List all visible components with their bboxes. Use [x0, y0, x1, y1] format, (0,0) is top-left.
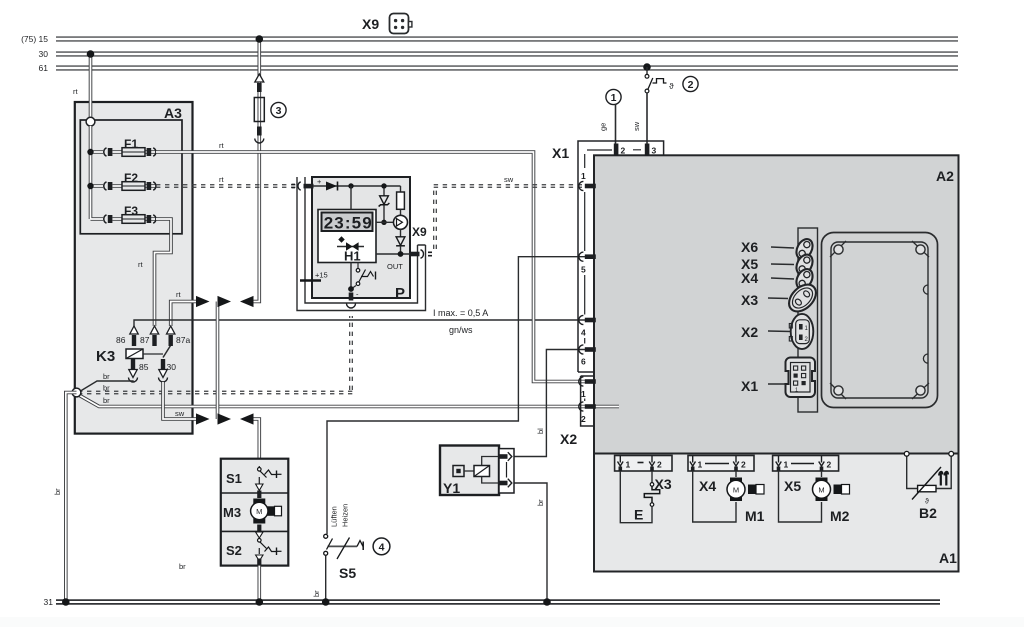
label bl vertical — [536, 428, 545, 434]
svg-text:5: 5 — [581, 265, 586, 275]
buzzer — [394, 209, 408, 229]
node br on A3 edge — [72, 388, 81, 397]
connector strip X1 — [552, 141, 664, 372]
connector face X1 — [741, 358, 815, 398]
timer unit P outer collar — [297, 177, 426, 311]
wire 85 to ground node — [78, 381, 133, 393]
circled 4 — [373, 538, 390, 555]
connector strip X5 — [773, 456, 839, 495]
svg-text:X4: X4 — [699, 478, 716, 494]
label sw — [175, 409, 185, 418]
svg-text:A2: A2 — [936, 168, 954, 184]
svg-text:M: M — [256, 507, 262, 516]
svg-text:M3: M3 — [223, 505, 241, 520]
wire ge circled1 to X1 pin2 — [615, 104, 617, 148]
X2 pin 2 — [579, 402, 596, 424]
clock display box — [318, 186, 376, 263]
relay K3 — [96, 344, 172, 365]
OUT node — [376, 251, 410, 271]
wire sw thermal to X1 pin3 — [646, 93, 648, 148]
svg-text:X1: X1 — [552, 145, 569, 161]
glow plug E — [620, 471, 659, 523]
svg-text:K3: K3 — [96, 348, 115, 365]
ECU connector panel — [798, 228, 818, 412]
K3 pin 87a — [167, 326, 191, 346]
connector strip X4 — [688, 456, 754, 495]
fuse 3 wire from bus15 — [240, 35, 263, 307]
motor M3 — [223, 499, 282, 524]
svg-text:2: 2 — [741, 460, 746, 470]
label sw vertical — [632, 121, 641, 131]
svg-text:ϑ: ϑ — [669, 81, 674, 91]
svg-text:1: 1 — [581, 171, 586, 181]
connector face X2 — [741, 314, 813, 349]
svg-text:M1: M1 — [745, 508, 765, 524]
box S1 M3 S2 — [221, 459, 288, 566]
X1 pin 3 — [645, 144, 657, 156]
svg-text:X2: X2 — [741, 324, 758, 340]
wire S2 to bus31 — [255, 566, 263, 606]
motor M2 — [779, 471, 850, 525]
dashed wire X9 to X1 pin1 — [434, 185, 582, 249]
K3 pin 87 — [140, 326, 159, 346]
bus 30 — [56, 51, 958, 56]
svg-text:br: br — [103, 396, 110, 405]
wire 87a to plug row1 — [171, 296, 210, 326]
svg-text:1: 1 — [795, 388, 798, 394]
svg-text:M2: M2 — [830, 508, 850, 524]
circled 1 — [606, 89, 621, 104]
svg-text:6: 6 — [581, 357, 586, 367]
label X9 top — [362, 16, 379, 32]
P input pin 15 — [292, 177, 323, 190]
wire X2 pin2 stub inside A2 — [594, 405, 619, 409]
diode D2 — [396, 229, 405, 254]
svg-text:1: 1 — [784, 460, 789, 470]
wire Y1 to bus31 — [514, 483, 551, 606]
X1 pin 4 — [579, 315, 596, 337]
heater box A1 — [594, 454, 959, 572]
label I max — [433, 308, 488, 318]
svg-text:gn/ws: gn/ws — [449, 325, 473, 335]
svg-text:ge: ge — [599, 123, 608, 131]
bus 61 — [56, 65, 958, 70]
switch S1 — [226, 466, 282, 498]
X1 pin 6 — [579, 345, 596, 367]
svg-text:S2: S2 — [226, 543, 242, 558]
switch S5 — [324, 534, 364, 581]
svg-text:H1: H1 — [344, 249, 361, 264]
fuse 3 connector lower — [255, 127, 264, 143]
+15 terminal — [300, 271, 328, 281]
svg-text:bl: bl — [536, 428, 545, 434]
svg-text:1: 1 — [611, 92, 617, 104]
svg-text:+: + — [317, 177, 322, 186]
svg-text:2: 2 — [688, 79, 694, 91]
motor M1 — [693, 471, 765, 525]
label br vertical — [536, 499, 545, 506]
fuse 3 connector upper — [255, 74, 264, 92]
svg-text:br: br — [53, 488, 62, 495]
label rt — [176, 290, 181, 299]
X1 pin 2 — [614, 144, 626, 156]
box A3 — [75, 102, 193, 434]
wire fuse rail — [87, 126, 103, 219]
svg-text:4: 4 — [581, 328, 586, 338]
svg-text:br: br — [179, 562, 186, 571]
svg-text:sw: sw — [632, 121, 641, 131]
K3 pin 86 — [116, 326, 138, 346]
svg-text:30: 30 — [167, 362, 177, 372]
thermal switch circled 2 — [643, 63, 674, 93]
connector strip X3 — [615, 456, 672, 493]
svg-text:E: E — [634, 507, 643, 523]
dashed wire br node to P minus — [78, 316, 352, 394]
connector face X5 — [741, 252, 816, 277]
svg-text:br: br — [536, 499, 545, 506]
svg-text:3: 3 — [652, 146, 657, 156]
svg-text:2: 2 — [827, 460, 832, 470]
Y1 connector collar — [499, 449, 514, 493]
label br vertical — [53, 488, 62, 495]
label rt — [219, 141, 224, 150]
svg-text:M: M — [818, 485, 824, 494]
svg-text:1: 1 — [626, 460, 631, 470]
label rt — [73, 87, 78, 96]
svg-text:X9: X9 — [412, 225, 427, 239]
svg-text:br: br — [103, 384, 110, 393]
svg-text:X1: X1 — [741, 378, 758, 394]
label br — [179, 562, 186, 571]
ECU housing — [822, 233, 938, 408]
svg-text:1: 1 — [698, 460, 703, 470]
node on fuse box — [86, 117, 95, 126]
ECU box A2 — [594, 155, 959, 453]
svg-text:F2: F2 — [124, 171, 138, 185]
svg-text:2: 2 — [621, 146, 626, 156]
label 61 — [39, 63, 49, 73]
diode D1 — [326, 182, 338, 191]
svg-text:61: 61 — [39, 63, 49, 73]
connector face X3 — [741, 279, 821, 316]
label rt — [219, 175, 224, 184]
fuse F2 — [104, 171, 156, 190]
lamp H1 — [337, 236, 364, 263]
wire F1 to X2 pin1 — [156, 152, 587, 382]
svg-text:M: M — [733, 485, 739, 494]
svg-text:sw: sw — [175, 409, 185, 418]
end — [0, 617, 1024, 627]
svg-text:OUT: OUT — [387, 262, 403, 271]
zener diode — [376, 188, 394, 225]
label ge vertical — [599, 123, 608, 131]
wire K3-30 to plug row2 — [163, 382, 210, 425]
wire br node to X2 pin2 — [77, 394, 619, 407]
svg-text:A3: A3 — [164, 105, 182, 121]
P minus exit — [347, 263, 360, 309]
svg-text:85: 85 — [139, 362, 149, 372]
plug link wire vertical — [218, 296, 232, 425]
svg-text:1: 1 — [581, 389, 586, 399]
fuse 3 — [254, 98, 264, 122]
label Heizen vertical — [341, 504, 350, 527]
svg-text:P: P — [395, 285, 405, 302]
K3 pin 85 — [129, 359, 149, 382]
svg-text:br: br — [103, 372, 110, 381]
svg-text:I max. = 0,5 A: I max. = 0,5 A — [433, 308, 488, 318]
label br — [103, 396, 110, 405]
resistor — [397, 192, 405, 209]
svg-text:31: 31 — [44, 597, 54, 607]
dashed wire F2 to P — [156, 185, 297, 188]
label Luften vertical — [330, 506, 339, 527]
svg-text:br: br — [312, 590, 321, 597]
svg-text:+15: +15 — [315, 271, 328, 280]
circled 2 — [683, 76, 698, 91]
switch S2 — [226, 525, 282, 566]
X2 pin 1 — [579, 377, 596, 399]
wire X1 pin6 to Y1 — [514, 350, 587, 457]
svg-text:X3: X3 — [741, 292, 758, 308]
fuse holder inner box — [80, 120, 182, 234]
svg-text:2: 2 — [581, 414, 586, 424]
wire plug row2 to S1 — [240, 413, 259, 466]
temperature sensor B2 — [904, 451, 953, 521]
svg-text:86: 86 — [116, 335, 126, 345]
svg-text:X5: X5 — [784, 478, 801, 494]
svg-text:sw: sw — [504, 175, 514, 184]
svg-text:S5: S5 — [339, 565, 356, 581]
svg-text:4: 4 — [379, 542, 385, 554]
connector face X6 — [741, 236, 816, 261]
label X9 — [412, 225, 427, 239]
wire F3 to K3 pin 87 — [155, 219, 172, 326]
svg-text:X4: X4 — [741, 270, 758, 286]
connector face X4 — [741, 266, 816, 291]
connector icon X9 top — [390, 14, 412, 34]
svg-text:X6: X6 — [741, 239, 758, 255]
svg-text:2: 2 — [657, 460, 662, 470]
bus 15 — [56, 36, 958, 41]
X9 output pin — [410, 250, 432, 259]
connector strip X2 — [560, 376, 594, 447]
svg-text:30: 30 — [39, 49, 49, 59]
wire br node to bus 31 — [62, 393, 76, 606]
svg-text:X2: X2 — [560, 431, 577, 447]
wire 86 to X1 pin4 — [134, 320, 587, 327]
label br — [103, 384, 110, 393]
label br vertical — [312, 590, 321, 597]
label sw — [504, 175, 514, 184]
svg-text:Y1: Y1 — [443, 480, 460, 496]
svg-text:(75) 15: (75) 15 — [21, 34, 48, 44]
svg-text:A1: A1 — [939, 550, 957, 566]
timer unit P body — [312, 177, 410, 302]
circled 3 — [271, 102, 286, 117]
svg-text:B2: B2 — [919, 505, 937, 521]
label rt — [138, 260, 143, 269]
K3 pin 30 — [159, 359, 177, 382]
svg-text:F1: F1 — [124, 137, 138, 151]
label 31 — [44, 597, 54, 607]
label gn/ws — [449, 325, 473, 335]
svg-text:Lüften: Lüften — [330, 506, 339, 527]
svg-text:X9: X9 — [362, 16, 379, 32]
svg-text:Heizen: Heizen — [341, 504, 350, 527]
wire S5 to bus31 — [322, 556, 330, 606]
svg-text:23:59: 23:59 — [324, 214, 372, 233]
svg-text:F3: F3 — [124, 204, 138, 218]
fuse F1 — [104, 137, 156, 156]
P internal switch — [356, 263, 375, 286]
label (75) 15 — [21, 34, 48, 44]
label 30 — [39, 49, 49, 59]
wire X1 pin5 to S5 — [327, 257, 587, 534]
P top rail — [313, 183, 401, 192]
svg-text:3: 3 — [276, 105, 282, 117]
svg-text:S1: S1 — [226, 471, 242, 486]
X1 pin 1 — [579, 171, 596, 191]
label br — [103, 372, 110, 381]
svg-text:87a: 87a — [176, 335, 190, 345]
bus 31 — [56, 599, 940, 604]
X1 pin 5 — [579, 252, 596, 274]
svg-text:87: 87 — [140, 335, 150, 345]
wire bus30 to A3 — [87, 50, 95, 122]
valve Y1 — [440, 446, 499, 497]
fuse F3 — [104, 204, 156, 223]
